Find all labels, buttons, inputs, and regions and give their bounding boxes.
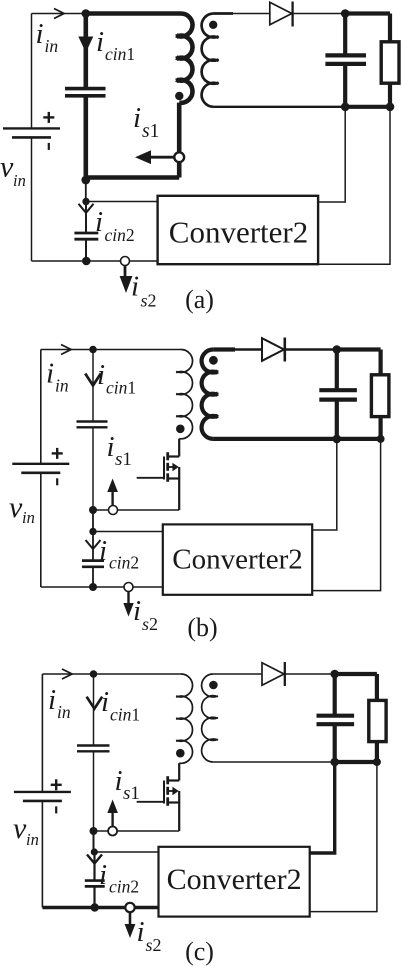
wire battery left vertical lower (a) (31, 137, 33, 261)
wire battery top to node B1 (41, 349, 93, 351)
diode D1 cathode bar (c) (284, 662, 286, 686)
svg-text:i: i (96, 26, 104, 58)
terminal circle i_s2 (b) (124, 583, 133, 592)
transformer T1 secondary winding (c) (202, 674, 218, 762)
mosfet Q drain stub (c) (168, 779, 180, 781)
svg-text:in: in (22, 508, 35, 527)
wire secondary top exit to diode (c) (213, 673, 262, 675)
wire diode to output node (b) (285, 348, 337, 351)
wire node B2 to mosfet source (b) (93, 509, 179, 511)
mosfet Q body stub (b) (168, 466, 173, 468)
wire battery left vertical lower (c) (41, 801, 43, 908)
capacitor c_in1 plate2 (a) (65, 94, 106, 98)
wire load branch lower (c) (375, 742, 379, 762)
wire c_in2 lower (c) (93, 886, 95, 907)
mosfet Q body arrow (c) (172, 787, 178, 795)
svg-text:i: i (131, 271, 139, 303)
capacitor Co plate2 (c) (317, 722, 355, 726)
terminal circle i_s2 (a) (121, 257, 130, 266)
wire c_in2 lower (a) (85, 239, 87, 261)
mosfet Q channel bar top (b) (166, 452, 169, 460)
wire thick output top (b) (337, 347, 381, 351)
wire c_in1 branch upper (a) (84, 14, 89, 89)
capacitor c_in2 plate2 (a) (74, 238, 98, 241)
wire terminal to converter (c) (135, 906, 159, 909)
transformer T1 primary winding (b) (176, 350, 192, 439)
mosfet Q source-body vertical (c) (178, 791, 180, 803)
wire node C3 to converter (c) (94, 851, 159, 853)
converter2 block (c) (159, 847, 310, 917)
svg-text:s2: s2 (146, 935, 162, 955)
capacitor c_in1 plate1 (c) (77, 744, 110, 746)
diode D1 cathode bar (b) (283, 338, 286, 362)
capacitor c_in2 plate1 (b) (82, 559, 104, 562)
svg-text:i: i (99, 535, 107, 567)
wire c_in1 branch lower (a) (84, 96, 89, 178)
wire thick top node A1 to primary (a) (86, 11, 181, 16)
current arrow i_s2 (c) (129, 913, 132, 926)
transformer T1 secondary polarity dot (b) (209, 356, 218, 365)
wire load branch upper (a) (388, 14, 392, 42)
wire load branch lower (a) (388, 83, 392, 107)
mosfet Q source stub (c) (168, 801, 180, 803)
current arrow i_cin1 (c) (87, 697, 103, 709)
wire bottom to terminal (a) (32, 260, 126, 262)
battery positive plate (b) (12, 463, 69, 465)
battery minus sign (c) (55, 806, 57, 813)
svg-text:cin1: cin1 (106, 378, 136, 398)
panel (a) flyback converter with input filter (0, 2, 399, 315)
wire diode to output node (a) (293, 13, 346, 15)
wire battery left vertical upper (b) (40, 350, 42, 464)
svg-text:cin2: cin2 (109, 877, 139, 897)
wire load bottom to converter (a) (318, 107, 390, 264)
converter2 block (b) (163, 524, 312, 594)
capacitor c_in1 plate2 (c) (77, 750, 110, 752)
svg-text:cin2: cin2 (105, 225, 135, 245)
wire c_in2 upper (b) (92, 532, 94, 561)
wire load branch lower (b) (379, 417, 383, 439)
svg-text:i: i (133, 595, 141, 627)
battery negative plate (b) (21, 471, 60, 474)
wire battery left vertical upper (a) (31, 14, 33, 129)
transformer T1 primary polarity dot (a) (175, 92, 183, 100)
wire node B2 down (b) (92, 510, 94, 532)
svg-text:s1: s1 (115, 449, 132, 470)
svg-text:v: v (9, 491, 23, 524)
wire thick output top (c) (335, 672, 377, 676)
switch terminal circle (b) (109, 506, 118, 515)
svg-text:cin1: cin1 (105, 44, 135, 64)
wire c_in1 lower (b) (92, 427, 94, 510)
current arrow i_cin1 (a) (78, 37, 93, 53)
transformer T1 primary winding (c) (176, 674, 192, 763)
svg-text:in: in (55, 376, 69, 396)
battery plus sign (b) (52, 452, 63, 454)
wire terminal to converter (a) (130, 260, 158, 262)
wire c_in2 upper (a) (85, 202, 87, 234)
capacitor Co plate2 (b) (319, 398, 357, 402)
wire node B3 to converter (b) (93, 531, 163, 533)
node load bottom (b) (377, 435, 385, 443)
current arrow i_in (c) (62, 669, 72, 679)
svg-text:i: i (107, 431, 115, 463)
wire primary exit to mosfet drain (c) (178, 763, 180, 780)
wire secondary bottom (c) (213, 761, 335, 763)
mosfet Q gate lead (b) (137, 477, 164, 479)
mosfet Q body stub (c) (168, 790, 173, 792)
mosfet Q channel bar bottom (c) (166, 797, 169, 806)
mosfet Q source stub (b) (168, 477, 180, 479)
svg-text:v: v (13, 812, 27, 845)
svg-text:Converter2: Converter2 (167, 863, 302, 896)
terminal circle i_s2 (c) (125, 903, 134, 912)
wire node A2 down (a) (85, 180, 87, 202)
wire load branch upper (c) (375, 674, 379, 700)
node output top (a) (341, 9, 350, 18)
svg-text:s2: s2 (141, 291, 157, 311)
svg-text:Converter2: Converter2 (169, 215, 308, 250)
wire battery left vertical lower (b) (40, 473, 42, 587)
wire output cap branch lower (c) (333, 724, 337, 762)
node output cap bottom (c) (330, 758, 339, 767)
diode D1 cathode bar (a) (291, 2, 293, 27)
wire load bottom to converter (c) (310, 762, 377, 912)
svg-text:i: i (36, 18, 44, 50)
converter2 block (a) (158, 196, 319, 264)
wire diode to output node (c) (285, 673, 335, 675)
node output cap bottom (a) (341, 103, 350, 112)
wire mosfet source corner (c) (178, 802, 180, 831)
wire secondary bottom (a) (214, 106, 346, 108)
svg-text:i: i (115, 765, 123, 797)
capacitor c_in1 plate1 (a) (65, 87, 106, 91)
svg-text:in: in (45, 36, 59, 56)
current arrow i_s1 (b) (111, 491, 113, 506)
capacitor c_in2 plate2 (b) (82, 565, 104, 568)
wire node B1 to primary (b) (93, 349, 181, 351)
node A3 (a) (82, 198, 89, 205)
transformer T1 secondary polarity dot (c) (209, 681, 218, 690)
capacitor Co plate1 (a) (325, 53, 366, 57)
wire c_in1 lower (c) (93, 751, 95, 831)
current arrow i_in (a) (54, 9, 64, 19)
svg-text:s1: s1 (142, 121, 159, 142)
svg-text:s1: s1 (123, 783, 140, 804)
svg-text:cin2: cin2 (109, 553, 139, 573)
current arrow i_s2 (a) (124, 266, 127, 277)
resistor RL (b) (371, 375, 389, 417)
current arrow i_cin2 (c) (87, 855, 102, 864)
svg-text:cin1: cin1 (110, 705, 140, 725)
wire output cap branch lower (a) (343, 64, 347, 107)
capacitor Co plate1 (b) (319, 388, 357, 392)
current arrow i_cin2 (a) (79, 204, 94, 213)
wire output cap branch upper (b) (335, 350, 339, 391)
svg-text:i: i (101, 686, 109, 718)
battery negative plate (c) (23, 800, 62, 803)
battery plus sign (a) (43, 116, 54, 118)
svg-text:(a): (a) (185, 285, 214, 314)
current arrow i_in (b) (61, 345, 71, 355)
svg-text:Converter2: Converter2 (172, 544, 302, 576)
capacitor Co plate1 (c) (317, 714, 355, 718)
current arrow i_s2 (b) (127, 592, 129, 605)
transformer T1 secondary winding (b) (202, 350, 218, 439)
wire bottom to terminal (b) (41, 586, 129, 588)
node load bottom (a) (386, 103, 395, 112)
wire thick output bottom (b) (337, 437, 381, 441)
wire load bottom to converter (b) (312, 439, 380, 591)
node A2 (a) (81, 176, 90, 185)
battery positive plate (a) (3, 127, 60, 129)
svg-text:(b): (b) (187, 613, 217, 642)
node output top (b) (333, 345, 342, 354)
svg-text:s2: s2 (142, 614, 158, 634)
wire c_in1 upper (c) (93, 674, 95, 746)
wire terminal to converter (b) (133, 586, 163, 588)
mosfet Q body arrow (b) (172, 463, 178, 471)
wire secondary bottom (b) (213, 437, 337, 441)
wire node A3 to converter (a) (86, 201, 158, 203)
wire output cap branch upper (a) (343, 14, 347, 56)
node B1 top (89, 346, 97, 354)
node load bottom (c) (373, 758, 381, 766)
diode D1 triangle (a) (270, 2, 292, 24)
transformer T1 primary polarity dot (b) (176, 425, 185, 434)
wire thick output bottom (a) (345, 105, 390, 109)
diode D1 triangle (c) (262, 663, 284, 685)
node C4 bottom (c) (91, 903, 99, 911)
mosfet Q drain stub (b) (168, 455, 180, 457)
transformer T1 primary polarity dot (c) (176, 749, 185, 758)
current arrow i_s1 (c) (111, 812, 113, 827)
node output cap bottom (b) (333, 435, 342, 444)
mosfet Q channel bar middle (b) (166, 463, 169, 471)
battery negative plate (a) (12, 136, 51, 139)
svg-text:in: in (57, 702, 71, 722)
wire mosfet source corner (b) (178, 478, 180, 510)
capacitor c_in2 plate2 (c) (85, 885, 105, 888)
wire node C2 down (c) (93, 831, 95, 852)
capacitor Co plate2 (a) (325, 62, 366, 66)
wire battery left vertical upper (c) (41, 674, 43, 792)
node A4 bottom (a) (82, 257, 91, 266)
wire secondary top exit (a) (214, 12, 233, 15)
capacitor c_in2 plate1 (c) (85, 879, 105, 882)
mosfet Q channel bar top (c) (166, 776, 169, 784)
wire primary exit to mosfet drain (b) (178, 439, 180, 457)
node C3 (c) (91, 848, 98, 855)
svg-text:(c): (c) (185, 937, 214, 966)
transformer T1 primary winding (a) (176, 13, 192, 102)
battery positive plate (c) (14, 791, 71, 793)
switch terminal circle (a) (174, 152, 184, 162)
wire thick switch horizontal (a) (86, 175, 179, 180)
svg-text:v: v (0, 151, 14, 184)
svg-text:i: i (48, 684, 56, 716)
wire output cap bottom to converter (a) (318, 107, 345, 202)
mosfet Q source-body vertical (b) (178, 467, 180, 479)
mosfet Q gate bar (c) (163, 781, 165, 804)
battery plus sign (c) (51, 784, 62, 786)
diode D1 triangle (b) (262, 338, 284, 361)
resistor RL (c) (369, 700, 386, 741)
node B4 bottom (b) (89, 583, 97, 591)
wire bottom thick battery to terminal (c) (42, 906, 130, 909)
svg-text:in: in (13, 171, 26, 190)
current arrow i_s1 (a) (149, 156, 174, 159)
wire primary exit down to switch terminal (a) (177, 103, 182, 153)
current arrow i_cin2 (b) (86, 540, 101, 549)
transformer T1 secondary winding (a) (202, 14, 219, 107)
svg-text:i: i (137, 916, 145, 948)
current arrow i_cin1 (b) (85, 374, 101, 386)
wire output cap branch lower (b) (335, 400, 339, 439)
node B2 (b) (89, 506, 97, 514)
node C1 top (90, 670, 98, 678)
wire output cap branch upper (c) (333, 674, 337, 716)
wire battery top to node A1 (32, 13, 86, 15)
resistor RL (a) (381, 42, 399, 83)
transformer T1 secondary polarity dot (a) (209, 21, 217, 29)
wire to diode anode (b) (234, 348, 262, 351)
panel (c) circuit with MOSFET switch, output loop highlighted (13, 662, 386, 966)
wire c_in1 upper (b) (92, 350, 94, 422)
wire output cap bottom to converter thick (c) (310, 762, 335, 853)
wire thick output top (a) (345, 11, 390, 15)
svg-text:i: i (133, 102, 141, 134)
wire thick switch vertical (a) (177, 162, 182, 178)
wire battery top to node C1 (42, 673, 93, 675)
capacitor c_in1 plate1 (b) (77, 420, 108, 422)
svg-text:in: in (26, 830, 39, 849)
svg-text:i: i (97, 359, 105, 391)
capacitor c_in1 plate2 (b) (77, 426, 108, 428)
wire output cap bottom to converter (b) (312, 439, 337, 530)
switch terminal circle (c) (108, 827, 117, 836)
wire c_in2 upper (c) (93, 852, 95, 881)
mosfet Q channel bar middle (c) (166, 787, 169, 795)
wire to diode anode (a) (232, 13, 270, 15)
wire c_in2 lower (b) (92, 567, 94, 587)
node output top (c) (330, 670, 339, 679)
battery minus sign (a) (48, 143, 50, 150)
battery minus sign (b) (56, 478, 58, 485)
mosfet Q gate lead (c) (137, 801, 164, 803)
mosfet Q channel bar bottom (b) (166, 473, 169, 482)
node A1 top (82, 9, 91, 18)
capacitor c_in2 plate1 (a) (74, 232, 98, 235)
wire thick output bottom (c) (335, 760, 377, 764)
panel (b) circuit with MOSFET switch (9, 338, 389, 643)
wire node C2 to mosfet source (c) (94, 830, 180, 832)
wire load branch upper (b) (379, 350, 383, 375)
wire secondary top exit (b) (213, 347, 235, 351)
svg-text:i: i (46, 358, 54, 390)
node B3 (b) (89, 528, 96, 535)
node C2 (c) (90, 827, 98, 835)
mosfet Q gate bar (b) (163, 457, 165, 480)
wire node C1 to primary (c) (94, 673, 182, 675)
